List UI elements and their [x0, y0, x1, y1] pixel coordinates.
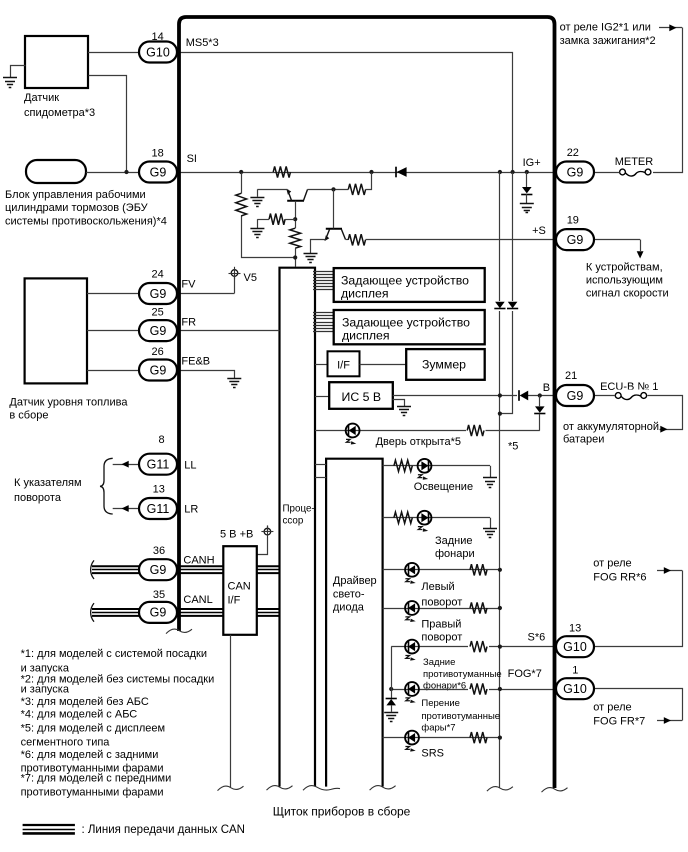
- wire Q1 base: [293, 201, 297, 228]
- wire +S: [366, 239, 554, 241]
- CAN I/F box: [223, 546, 256, 635]
- wire +S output: [594, 240, 644, 259]
- svg-text:Перение: Перение: [421, 698, 460, 709]
- svg-text:батареи: батареи: [563, 433, 604, 445]
- wire FR: [177, 330, 280, 332]
- CANL bus wire (CAN I/F to processor): [257, 609, 280, 616]
- connector G11 pin 13: [139, 483, 177, 519]
- wire from IG2 relay: [653, 24, 683, 172]
- connector G11 pin 8: [139, 434, 177, 475]
- diode D5 on B line: [517, 390, 528, 401]
- resistor tail lamps: [394, 512, 412, 523]
- svg-text:*1: для моделей с системой пос: *1: для моделей с системой посадки: [21, 648, 207, 660]
- svg-text:от реле: от реле: [593, 701, 631, 713]
- svg-text:CANL: CANL: [183, 594, 212, 606]
- CANH bus wire (CAN I/F to processor): [257, 566, 280, 573]
- ground at FE&B: [227, 379, 241, 388]
- svg-text:К указателям: К указателям: [14, 477, 82, 489]
- wire fog branch vertical: [391, 647, 393, 698]
- ground at speedometer sensor: [3, 66, 26, 88]
- label SI: [187, 153, 197, 165]
- wire speedometer to G10 pin 14: [88, 52, 139, 54]
- LED door open: [346, 424, 360, 445]
- wire base node to processor: [293, 255, 297, 266]
- ribbon bus to display driver 1: [313, 272, 334, 290]
- label processor: [283, 504, 315, 527]
- svg-text:дисплея: дисплея: [342, 329, 390, 343]
- wire METER to G9 22: [594, 172, 620, 174]
- svg-text:G9: G9: [567, 233, 584, 247]
- resistor front fog: [468, 683, 489, 696]
- processor box: [280, 268, 316, 787]
- label SRS: [421, 748, 444, 760]
- resistor R3: [348, 184, 365, 195]
- label display driver 2: [342, 315, 470, 342]
- label FR: [181, 316, 196, 328]
- break processor left: [267, 786, 293, 791]
- svg-text:FOG RR*6: FOG RR*6: [593, 572, 646, 584]
- ground at tail lamps: [483, 529, 497, 538]
- svg-text:Дверь открыта*5: Дверь открыта*5: [376, 436, 461, 448]
- ground at R4: [250, 219, 264, 237]
- svg-text:Левый: Левый: [421, 581, 454, 593]
- label LED driver: [333, 575, 377, 614]
- connector G9 pin 35: [139, 589, 177, 623]
- svg-text:FV: FV: [181, 279, 196, 291]
- LED right turn: [405, 601, 419, 622]
- diode D1 on SI line: [396, 167, 407, 178]
- CANH bus wire (border to CAN I/F): [177, 566, 223, 573]
- connector G9 pin 25: [139, 307, 177, 342]
- legend CAN line text: [82, 824, 245, 836]
- LED front fog: [405, 682, 419, 703]
- svg-text:Задающее устройство: Задающее устройство: [342, 315, 470, 329]
- label to speed signal devices: [586, 261, 669, 299]
- svg-text:сигнал скорости: сигнал скорости: [586, 287, 669, 299]
- CANL bus wire (left stub): [91, 603, 139, 622]
- connector G9 pin 22 (right): [556, 147, 594, 183]
- svg-text:25: 25: [152, 307, 164, 319]
- ground at fog branch: [384, 713, 398, 722]
- wire speedometer to SI node: [89, 76, 127, 173]
- label fuel sender: [9, 397, 128, 422]
- wire FE&B to ground: [178, 371, 235, 379]
- label CAN I/F: [228, 580, 251, 606]
- diode D7 fog branch to ground: [386, 699, 397, 712]
- ABS brake actuator block: [26, 160, 86, 183]
- svg-text:G9: G9: [150, 363, 167, 377]
- svg-text:CANH: CANH: [183, 555, 214, 567]
- wire fuel FV: [87, 293, 139, 295]
- svg-text:: Линия передачи данных CAN: : Линия передачи данных CAN: [82, 824, 245, 836]
- svg-text:*7: для моделей с передними: *7: для моделей с передними: [21, 772, 172, 784]
- ground at lighting: [483, 478, 497, 488]
- svg-text:Датчик уровня топлива: Датчик уровня топлива: [9, 397, 128, 409]
- svg-text:*5: для моделей с дисплеем: *5: для моделей с дисплеем: [21, 723, 166, 735]
- break processor right and driver left: [303, 786, 340, 791]
- display driver box 1: [334, 268, 485, 302]
- LED tail lamps: [418, 511, 432, 532]
- svg-text:от аккумуляторной: от аккумуляторной: [563, 421, 659, 433]
- wire CAN I/F descender: [230, 635, 232, 787]
- svg-text:Проце-: Проце-: [283, 504, 315, 515]
- wire processor to IC 5V: [315, 396, 329, 398]
- connector G9 pin 36: [139, 545, 177, 580]
- diode D4 on rail 2: [507, 301, 518, 311]
- svg-text:19: 19: [567, 215, 579, 227]
- label B: [543, 382, 550, 394]
- wire Q1 emitter to ground: [257, 189, 287, 191]
- IC 5V box: [329, 382, 393, 409]
- resistor lighting: [394, 460, 412, 471]
- LED left turn: [405, 563, 419, 584]
- svg-text:Задние: Задние: [435, 535, 473, 547]
- svg-text:Драйвер: Драйвер: [333, 575, 377, 587]
- label door open: [376, 436, 461, 448]
- wire MS5*3: [178, 53, 513, 173]
- connector G10 pin 1 (right): [556, 664, 594, 699]
- svg-text:G10: G10: [563, 640, 587, 654]
- svg-text:К устройствам,: К устройствам,: [586, 261, 663, 273]
- fuse METER: [618, 166, 653, 179]
- connector G9 pin 21 (right): [556, 370, 594, 406]
- wire R3 to junction B: [366, 173, 372, 190]
- svg-text:спидометра*3: спидометра*3: [24, 107, 95, 119]
- label ECU-B fuse: [600, 381, 658, 393]
- connector G10 pin 13 (right): [556, 622, 594, 657]
- svg-text:*5: *5: [508, 441, 518, 453]
- wire fuel FR: [87, 330, 139, 332]
- svg-text:22: 22: [567, 147, 579, 159]
- I/F box: [328, 351, 360, 376]
- wire Q2 base from node C: [333, 189, 335, 228]
- wire rail 1 (x=500): [499, 172, 501, 788]
- wire lighting: [383, 466, 491, 478]
- label front fog: [421, 698, 500, 734]
- label LR: [184, 504, 198, 516]
- label FOG*7: [508, 668, 542, 680]
- wire right turn: [383, 606, 502, 610]
- svg-text:26: 26: [152, 346, 164, 358]
- svg-text:поворота: поворота: [14, 492, 62, 504]
- svg-text:13: 13: [153, 483, 165, 495]
- svg-text:*3: для моделей без АБС: *3: для моделей без АБС: [21, 696, 149, 708]
- svg-text:21: 21: [565, 370, 577, 382]
- border break left: [166, 629, 192, 634]
- test point V5: [229, 267, 257, 294]
- label LL: [184, 460, 196, 472]
- legend CAN line symbol: [23, 825, 75, 833]
- wire fuel FE&B: [87, 370, 139, 372]
- svg-text:FR: FR: [181, 316, 196, 328]
- LED SRS: [405, 731, 419, 752]
- wire B line: [393, 393, 553, 397]
- break driver right: [370, 786, 396, 791]
- instrument cluster border: [179, 17, 555, 788]
- wire left turn: [383, 568, 502, 572]
- label speedometer sensor: [24, 92, 95, 119]
- svg-text:G9: G9: [150, 324, 167, 338]
- wire junction A drop: [242, 173, 296, 258]
- svg-text:18: 18: [152, 148, 164, 160]
- svg-text:Зуммер: Зуммер: [422, 358, 466, 372]
- label from FOG RR relay: [593, 558, 646, 584]
- break rail 1: [487, 787, 513, 792]
- svg-text:*4: для моделей с АБС: *4: для моделей с АБС: [21, 709, 138, 721]
- svg-text:1: 1: [572, 664, 578, 676]
- resistor left turn: [470, 564, 487, 575]
- fuel sender box: [25, 278, 87, 383]
- svg-text:Освещение: Освещение: [414, 481, 473, 493]
- turn signal arrows and brace: [100, 458, 140, 514]
- connector G9 pin 24: [139, 269, 177, 305]
- connector G9 pin 18: [139, 148, 177, 183]
- svg-text:METER: METER: [615, 156, 654, 168]
- wire I/F to buzzer: [360, 364, 407, 366]
- svg-text:G10: G10: [563, 682, 587, 696]
- svg-text:+S: +S: [532, 225, 546, 237]
- connector G9 pin 19 (right): [556, 215, 594, 251]
- wire from FOG FR relay: [595, 689, 683, 724]
- svg-text:G9: G9: [567, 165, 584, 179]
- label instrument cluster assembly: [273, 804, 411, 818]
- label from FOG FR relay: [593, 701, 645, 727]
- svg-text:фары*7: фары*7: [421, 723, 455, 734]
- diode D6 (B to door line): [534, 396, 545, 431]
- svg-text:замка зажигания*2: замка зажигания*2: [560, 35, 656, 47]
- label rear fog: [423, 657, 502, 692]
- label lighting: [414, 481, 473, 493]
- svg-text:поворот: поворот: [421, 596, 462, 608]
- label MS5*3: [186, 37, 219, 49]
- svg-text:8: 8: [159, 434, 165, 446]
- svg-text:SI: SI: [187, 153, 197, 165]
- footnotes: [21, 648, 215, 798]
- border break right: [542, 788, 568, 793]
- resistor on SI line: [273, 166, 290, 177]
- svg-text:14: 14: [152, 31, 164, 43]
- wire tail lamps: [383, 518, 491, 529]
- svg-text:13: 13: [569, 622, 581, 634]
- break CAN descender: [218, 786, 244, 791]
- svg-text:G11: G11: [147, 502, 170, 516]
- svg-text:Блок управления рабочими: Блок управления рабочими: [5, 189, 146, 201]
- connector G9 pin 26: [139, 346, 177, 381]
- svg-text:от реле: от реле: [593, 558, 631, 570]
- resistor door line: [466, 424, 486, 437]
- label +S: [532, 225, 546, 237]
- fuse ECU-B: [613, 390, 648, 403]
- svg-text:фонари: фонари: [435, 548, 475, 560]
- svg-text:FOG FR*7: FOG FR*7: [593, 715, 645, 727]
- svg-text:системы противоскольжения)*4: системы противоскольжения)*4: [5, 215, 167, 227]
- svg-text:G9: G9: [567, 389, 584, 403]
- label from IG2 relay: [560, 22, 656, 48]
- svg-text:противотуманные: противотуманные: [423, 669, 502, 680]
- wire B to fuse: [594, 395, 615, 397]
- display driver box 2: [334, 310, 485, 344]
- LED rear fog: [405, 640, 419, 661]
- resistor right turn: [470, 602, 487, 613]
- transistor Q2: [325, 229, 346, 241]
- svg-text:цилиндрами тормозов (ЭБУ: цилиндрами тормозов (ЭБУ: [5, 202, 149, 214]
- svg-text:от реле IG2*1 или: от реле IG2*1 или: [560, 22, 651, 34]
- LED driver box: [326, 459, 383, 787]
- wire processor to I/F: [315, 364, 328, 366]
- wire ABS block to G9 pin 18: [86, 170, 139, 174]
- wire rail 2 (x=512.6): [498, 173, 513, 416]
- label to turn signals: [14, 477, 82, 504]
- resistor R6 (+S line): [348, 234, 365, 245]
- wire from battery: [648, 396, 683, 433]
- svg-text:5 В +B: 5 В +B: [220, 528, 253, 540]
- svg-text:G9: G9: [150, 563, 167, 577]
- label I/F: [337, 360, 350, 372]
- svg-text:MS5*3: MS5*3: [186, 37, 219, 49]
- svg-text:Правый: Правый: [421, 619, 461, 631]
- svg-text:I/F: I/F: [337, 360, 350, 372]
- LED lighting: [418, 459, 432, 480]
- svg-text:I/F: I/F: [228, 594, 241, 606]
- ground at Q2 emitter: [304, 254, 318, 263]
- wire Q1 collector node: [307, 187, 348, 191]
- label display driver 1: [341, 274, 469, 301]
- label CANL: [183, 594, 212, 606]
- label tail lamps: [435, 535, 475, 560]
- resistor R5 vertical (Q1 base): [290, 228, 301, 257]
- label S*6: [528, 632, 546, 644]
- label left turn: [421, 581, 462, 608]
- wire processor to driver stub 2: [315, 477, 326, 479]
- wire FV: [177, 293, 235, 295]
- test point 5V+B: [220, 525, 273, 554]
- svg-text:FOG*7: FOG*7: [508, 668, 542, 680]
- svg-text:IG+: IG+: [523, 157, 541, 169]
- wire SRS: [383, 736, 502, 740]
- svg-text:CAN: CAN: [228, 580, 251, 592]
- resistor R2 vertical: [236, 193, 247, 216]
- label IC 5V: [342, 390, 382, 404]
- svg-text:противотуманными фарами: противотуманными фарами: [21, 786, 164, 798]
- connector G10 pin 14: [139, 31, 177, 63]
- label METER: [615, 156, 654, 168]
- ground at IC 5V: [393, 400, 412, 416]
- label FE&B: [181, 355, 210, 367]
- svg-text:дисплея: дисплея: [341, 287, 389, 301]
- label from battery: [563, 421, 659, 446]
- ribbon bus to display driver 2: [313, 313, 334, 332]
- wire Q2 emitter to ground: [311, 240, 326, 254]
- label FV: [181, 279, 196, 291]
- CANH bus wire (left stub): [91, 560, 139, 579]
- svg-text:G10: G10: [146, 45, 170, 59]
- diode D3 on rail 1: [494, 301, 505, 311]
- label right turn: [421, 619, 462, 644]
- svg-text:24: 24: [152, 269, 164, 281]
- svg-text:36: 36: [153, 545, 165, 557]
- wire SI / IG+ rail: [177, 170, 553, 174]
- svg-text:FE&B: FE&B: [181, 355, 210, 367]
- svg-text:сегментного типа: сегментного типа: [21, 736, 111, 748]
- svg-text:G9: G9: [150, 165, 167, 179]
- svg-text:LL: LL: [184, 460, 196, 472]
- label CANH: [183, 555, 214, 567]
- resistor R4 to ground: [257, 214, 295, 225]
- svg-text:LR: LR: [184, 504, 198, 516]
- svg-text:свето-: свето-: [333, 589, 365, 601]
- wire front fog FOG*7: [389, 687, 553, 691]
- ground at Q1 emitter: [250, 189, 264, 206]
- svg-text:в сборе: в сборе: [9, 410, 48, 422]
- label buzzer: [422, 358, 466, 372]
- svg-text:SRS: SRS: [421, 748, 444, 760]
- speedometer sensor box: [25, 36, 88, 88]
- svg-text:35: 35: [153, 589, 165, 601]
- svg-text:и запуска: и запуска: [21, 684, 70, 696]
- wire from FOG RR relay: [595, 567, 683, 646]
- svg-text:S*6: S*6: [528, 632, 546, 644]
- svg-text:противотуманные: противотуманные: [421, 711, 500, 722]
- diode D2 to ground at IG+: [520, 172, 534, 213]
- wire processor to driver stub 1: [315, 464, 326, 466]
- svg-text:поворот: поворот: [421, 631, 462, 643]
- wire door open line: [315, 430, 540, 432]
- label *5: [508, 441, 518, 453]
- svg-text:B: B: [543, 382, 550, 394]
- wire Q2 collector: [346, 239, 349, 241]
- svg-text:Щиток приборов в сборе: Щиток приборов в сборе: [273, 804, 411, 818]
- svg-text:ссор: ссор: [283, 516, 304, 527]
- svg-text:диода: диода: [333, 602, 365, 614]
- resistor rear fog: [468, 640, 489, 653]
- svg-text:использующим: использующим: [586, 274, 663, 286]
- svg-text:*6: для моделей с задними: *6: для моделей с задними: [21, 749, 159, 761]
- label ABS ECU: [5, 189, 167, 227]
- svg-text:G11: G11: [147, 458, 170, 472]
- label IG+: [523, 157, 541, 169]
- svg-text:Задние: Задние: [423, 657, 455, 668]
- svg-text:Задающее устройство: Задающее устройство: [341, 274, 469, 288]
- buzzer box: [406, 349, 485, 380]
- svg-text:G9: G9: [150, 287, 167, 301]
- CANL bus wire (border to CAN I/F): [177, 609, 223, 616]
- svg-text:ИС 5 В: ИС 5 В: [342, 390, 382, 404]
- svg-text:Датчик: Датчик: [24, 92, 59, 104]
- resistor SRS: [470, 732, 487, 743]
- svg-text:G9: G9: [150, 606, 167, 620]
- transistor Q1: [286, 189, 307, 201]
- wire rear fog S*6: [391, 645, 553, 649]
- svg-text:V5: V5: [244, 272, 257, 284]
